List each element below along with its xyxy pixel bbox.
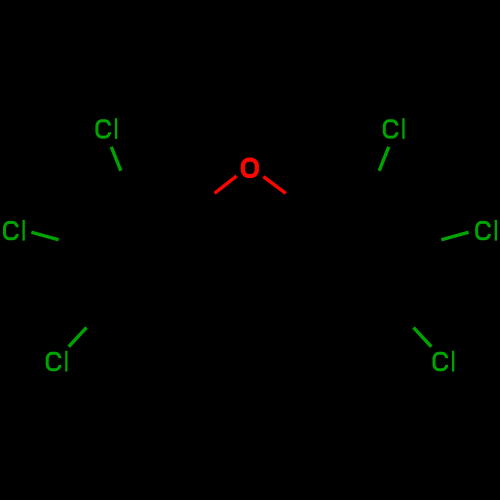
atom label Cl mid-left (C3) <box>5 220 25 241</box>
bond Cl-C4 half (green) <box>111 147 121 171</box>
bond Cl-C3 half (green) <box>31 232 58 240</box>
atom label Cl bottom-right (C8) <box>434 351 454 372</box>
atom label Cl top-left (C4) <box>97 118 117 139</box>
bond Cl-C2 half (green) <box>69 328 87 347</box>
bond O-C5a right half (red) <box>263 177 285 194</box>
atom label Cl top-right (C6) <box>384 118 404 139</box>
atom label O (furan oxygen) <box>243 160 257 176</box>
bond Cl-C7 half (green) <box>441 232 468 240</box>
bond Cl-C8 half (green) <box>414 328 432 347</box>
bond Cl-C6 half (green) <box>379 147 389 171</box>
bond O-C4a left half (red) <box>215 176 237 193</box>
atom label Cl mid-right (C7) <box>477 220 497 241</box>
atom label Cl bottom-left (C2) <box>47 351 67 372</box>
